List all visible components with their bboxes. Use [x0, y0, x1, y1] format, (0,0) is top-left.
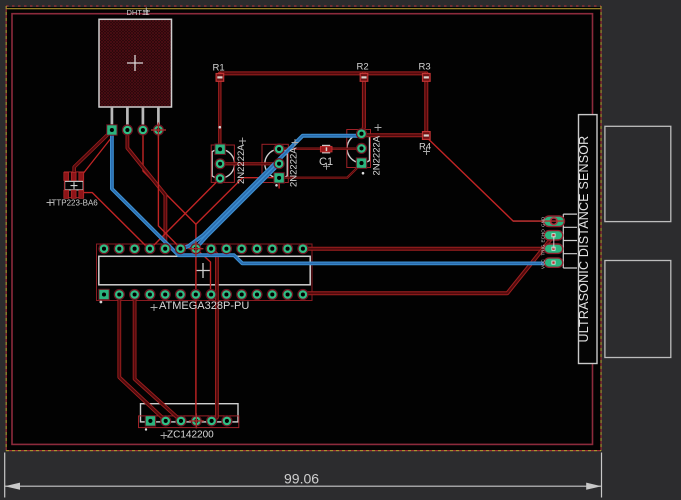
IC U2 origin cross — [71, 182, 78, 189]
label box ULTRASONIC DISTANCE SENSOR — [579, 115, 598, 364]
courtyard box Q3 — [347, 130, 371, 168]
IC U1 origin cross — [196, 263, 211, 278]
pad U1 bottom 3 — [129, 289, 140, 300]
wire U1 to ECHO — [303, 236, 554, 293]
header J2 silkscreen box — [141, 404, 239, 422]
wire U1 to J2 pin5 — [211, 249, 217, 421]
wire via to U1 pin — [196, 249, 211, 295]
origin dot Q3 — [362, 172, 365, 175]
pad Q1 collector (square pin 1) — [214, 144, 225, 155]
wire DHT pin2 to U1 — [127, 131, 165, 249]
pad U1 bottom 2 — [114, 289, 125, 300]
wire U1 to TRIG — [303, 247, 548, 251]
wire DHT pin3 to via — [143, 131, 196, 249]
svg-text:ULTRASONIC DISTANCE SENSOR: ULTRASONIC DISTANCE SENSOR — [577, 136, 591, 343]
courtyard box U1 — [97, 244, 313, 301]
pad U1 top 22 — [190, 243, 201, 254]
pad J2 pin2 — [160, 415, 171, 426]
svg-text:DHT11: DHT11 — [127, 8, 150, 17]
pad U1 bottom 9 — [221, 289, 232, 300]
pad J1 GND — [544, 216, 565, 227]
pad U1 top 27 — [114, 243, 125, 254]
pad U1 top 17 — [267, 243, 278, 254]
svg-text:R2: R2 — [357, 62, 369, 73]
pad Q2 collector — [274, 143, 285, 154]
wire R2 down to Q3 — [362, 73, 364, 132]
origin dot J2 — [145, 428, 147, 430]
pad U1 bottom 14 — [297, 289, 308, 300]
label DHT11 — [143, 8, 150, 16]
pad U1 top 19 — [236, 243, 247, 254]
wire R1 to Q1 collector — [218, 73, 222, 145]
label Q1 2N2222A — [239, 138, 246, 145]
wire Q2 to C1 to Q3 — [279, 147, 361, 149]
pad U1 bottom 6 — [175, 289, 186, 300]
label Q3 2N2222A — [375, 124, 382, 131]
svg-text:2N2222A: 2N2222A — [236, 144, 247, 184]
pad U1 bottom 7 — [190, 289, 201, 300]
svg-text:TRIG: TRIG — [541, 244, 546, 255]
capacitor C1 body — [320, 145, 332, 154]
pad U1 bottom 10 — [236, 289, 247, 300]
header J1 silkscreen comb — [563, 214, 577, 268]
frame bottom dashed line — [6, 450, 601, 452]
pad J2 pin5 — [206, 415, 217, 426]
svg-text:99.06: 99.06 — [284, 470, 319, 486]
svg-text:ATMEGA328P-PU: ATMEGA328P-PU — [159, 300, 249, 312]
airwire ECHO-TRIG — [553, 236, 555, 249]
pad U1 top 24 — [160, 243, 171, 254]
resistor R3 — [423, 74, 431, 82]
wire via to Q2 emitter — [196, 178, 279, 225]
courtyard box Q1 — [211, 145, 234, 182]
dimension line — [5, 485, 602, 487]
pad Q2 emitter (square pin 1) — [273, 172, 284, 183]
wire R3 down to R4 — [424, 73, 428, 133]
resistor R4 — [423, 132, 431, 140]
pad U1 bottom 8 — [206, 289, 217, 300]
wire DHT pin1 to VCC (bottom layer) — [112, 131, 549, 263]
dimension extension line left — [4, 453, 6, 498]
wire U1 to J2 pin2 — [119, 295, 166, 421]
pad U1 top 25 — [144, 243, 155, 254]
via cross J2 pad4 — [189, 413, 204, 428]
wire via down to J2 pin4 — [195, 249, 198, 421]
svg-text:C1: C1 — [319, 156, 333, 168]
label Q2 2N2222A — [292, 139, 299, 146]
resistor R2 — [360, 74, 368, 82]
wire R4 to GND pad — [426, 137, 549, 221]
pad U1 top 21 — [206, 243, 217, 254]
origin dot U1 — [100, 301, 103, 304]
svg-text:TTP223-BA6: TTP223-BA6 — [52, 199, 99, 208]
frame left dashed line — [5, 6, 7, 451]
pad U1 top 15 — [297, 243, 308, 254]
origin dot R1 trace — [219, 126, 222, 129]
pad DHT11-2 — [122, 124, 133, 135]
pad U1 bottom 12 — [267, 289, 278, 300]
wire U2 to U1 pad4 — [81, 193, 149, 250]
wire Q2 emitter to Q3 emitter — [279, 164, 361, 178]
IC U2 TTP223 pads — [64, 172, 84, 198]
pad Q1 emitter — [215, 173, 226, 184]
pad U1 bottom 5 — [160, 289, 171, 300]
pad U1 bottom 13 — [282, 289, 293, 300]
pad Q3 collector — [356, 128, 367, 139]
pad J2 pin1 (square pin 1) — [145, 415, 156, 426]
pad J1 VCC — [544, 258, 562, 267]
pad J1 ECHO — [544, 231, 562, 240]
svg-text:R1: R1 — [213, 63, 225, 74]
frame right dashed line — [600, 6, 602, 451]
component DHT11 body — [99, 19, 172, 107]
wire Q2 base to U1 pad7 (bottom layer) — [196, 164, 279, 249]
pad J2 pin4 — [191, 415, 202, 426]
transistor outline Q1 — [212, 149, 234, 178]
svg-text:ZC142200: ZC142200 — [167, 430, 214, 441]
off-board frame rectangle 2 — [605, 261, 671, 358]
svg-text:2N2222A: 2N2222A — [289, 147, 300, 187]
pad U1 top 23 — [175, 243, 186, 254]
wire DHT pin1 to U2 — [74, 131, 112, 177]
pad Q3 base — [356, 143, 367, 154]
origin dot Q2 — [275, 184, 278, 187]
resistor R1 — [216, 74, 224, 82]
label C1 — [323, 163, 330, 170]
wire Q2 emitter stub — [278, 181, 280, 189]
transistor outline Q2 — [265, 149, 287, 178]
wire Q1 emitter to U1 pad4 — [150, 178, 220, 249]
label TTP223-BA6 — [47, 199, 54, 206]
wire DHT pin1 to U2 pin6 — [81, 135, 113, 176]
pad U1 top 20 — [221, 243, 232, 254]
pad J1 TRIG — [544, 244, 562, 253]
pad Q1 base — [215, 158, 226, 169]
pad Q3 emitter (square pin 1) — [356, 157, 367, 168]
pad U1 top 28 — [98, 243, 109, 254]
frame yellow top line — [6, 8, 601, 10]
frame dashed red top line — [6, 5, 601, 7]
svg-text:R3: R3 — [419, 62, 431, 73]
pad J2 pin3 — [175, 415, 186, 426]
svg-text:R4: R4 — [419, 142, 431, 153]
IC U2 TTP223 silkscreen box — [65, 181, 84, 190]
pad U1 bottom 4 — [144, 289, 155, 300]
label R4 — [423, 148, 430, 155]
wire U1 to J2 pin3 — [135, 295, 182, 421]
courtyard box U2 — [64, 172, 83, 198]
pad U1 bottom 11 — [251, 289, 262, 300]
dimension extension line right — [601, 453, 603, 498]
wire R1-R2-R3 top bus — [220, 71, 426, 75]
courtyard box Q2 — [262, 144, 288, 182]
IC U1 silkscreen box — [99, 256, 310, 285]
black document area — [6, 7, 601, 451]
svg-text:GND: GND — [541, 216, 546, 227]
pad U1 pin1 (square pin 1) — [98, 289, 109, 300]
pad Q2 base — [274, 158, 285, 169]
pad U1 top 18 — [251, 243, 262, 254]
transistor outline Q3 — [347, 134, 369, 163]
wire Q1 base to Q2 — [220, 162, 279, 165]
pad DHT11-3 — [137, 124, 148, 135]
wire GND through pad — [513, 220, 564, 222]
svg-text:VCC: VCC — [541, 259, 546, 269]
dimension arrowhead right — [586, 483, 601, 490]
wire Q3 to U1 pad6 (bottom layer) — [181, 136, 361, 249]
dimension arrowhead left — [5, 483, 20, 490]
svg-text:ECHO: ECHO — [541, 229, 546, 243]
courtyard box J2 — [139, 416, 239, 428]
pad DHT11-1 (square pin 1) — [106, 124, 117, 135]
pad U1 top 16 — [282, 243, 293, 254]
label ATMEGA328P-PU — [151, 304, 158, 311]
pad DHT11-4 — [153, 124, 164, 135]
board outline (maroon) — [12, 14, 593, 445]
wire DHT pin4 to U1 pad6 — [158, 131, 181, 249]
pad U1 top 26 — [129, 243, 140, 254]
via cross DHT11-4 — [151, 123, 166, 138]
via cross U1 pad — [188, 241, 203, 256]
labels J1 pins — [0, 0, 1, 1]
label ZC142200 — [161, 432, 168, 439]
pad J2 pin6 — [221, 415, 232, 426]
DHT11 legs — [112, 107, 158, 125]
wire R4 left to Q3 top — [362, 134, 427, 135]
off-board frame rectangle 1 — [605, 126, 671, 221]
svg-text:2N2222A: 2N2222A — [372, 135, 383, 175]
